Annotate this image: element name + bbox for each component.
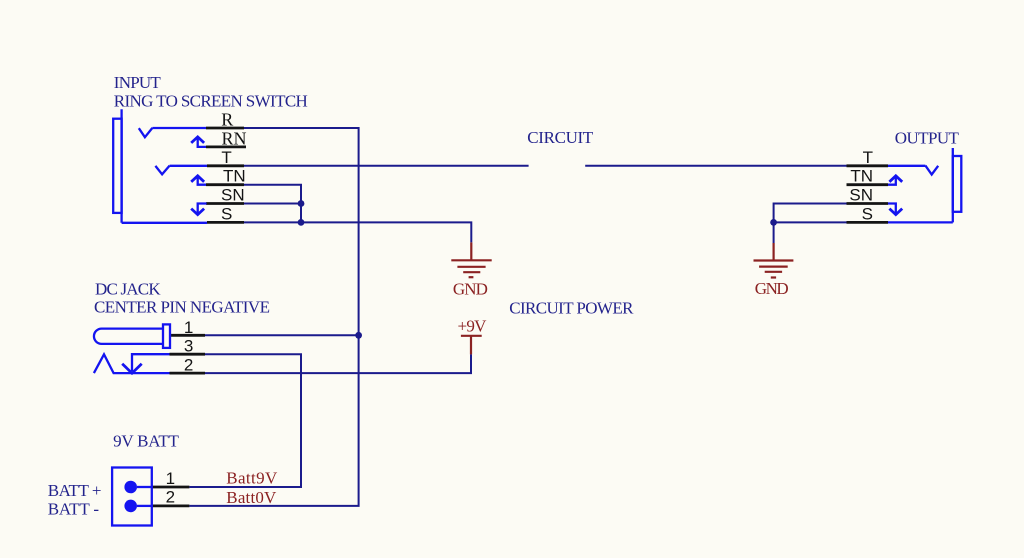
svg-text:R: R bbox=[221, 110, 233, 130]
svg-text:RING TO SCREEN SWITCH: RING TO SCREEN SWITCH bbox=[114, 92, 308, 111]
svg-text:DC JACK: DC JACK bbox=[95, 280, 161, 299]
svg-text:GND: GND bbox=[755, 279, 789, 298]
svg-text:SN: SN bbox=[221, 186, 245, 205]
svg-text:1: 1 bbox=[184, 318, 193, 337]
svg-text:+9V: +9V bbox=[458, 317, 488, 336]
svg-text:T: T bbox=[863, 148, 873, 167]
svg-text:OUTPUT: OUTPUT bbox=[895, 129, 960, 148]
svg-text:TN: TN bbox=[223, 167, 246, 186]
svg-text:S: S bbox=[221, 204, 232, 223]
svg-text:9V BATT: 9V BATT bbox=[113, 432, 179, 451]
svg-text:BATT -: BATT - bbox=[48, 499, 100, 518]
svg-text:CIRCUIT: CIRCUIT bbox=[527, 128, 594, 147]
svg-text:SN: SN bbox=[849, 186, 873, 205]
svg-text:2: 2 bbox=[166, 488, 175, 507]
svg-text:INPUT: INPUT bbox=[114, 73, 162, 92]
svg-text:RN: RN bbox=[222, 128, 247, 148]
svg-text:BATT +: BATT + bbox=[48, 481, 102, 500]
svg-text:Batt0V: Batt0V bbox=[226, 488, 277, 507]
svg-text:TN: TN bbox=[850, 167, 873, 186]
svg-text:1: 1 bbox=[166, 469, 175, 488]
svg-text:CIRCUIT POWER: CIRCUIT POWER bbox=[509, 299, 634, 318]
svg-text:CENTER PIN NEGATIVE: CENTER PIN NEGATIVE bbox=[94, 297, 270, 316]
svg-text:2: 2 bbox=[184, 356, 193, 375]
svg-text:GND: GND bbox=[453, 280, 488, 299]
svg-text:3: 3 bbox=[184, 337, 193, 356]
svg-text:T: T bbox=[221, 148, 231, 167]
svg-text:S: S bbox=[862, 204, 873, 223]
svg-text:Batt9V: Batt9V bbox=[226, 469, 278, 488]
